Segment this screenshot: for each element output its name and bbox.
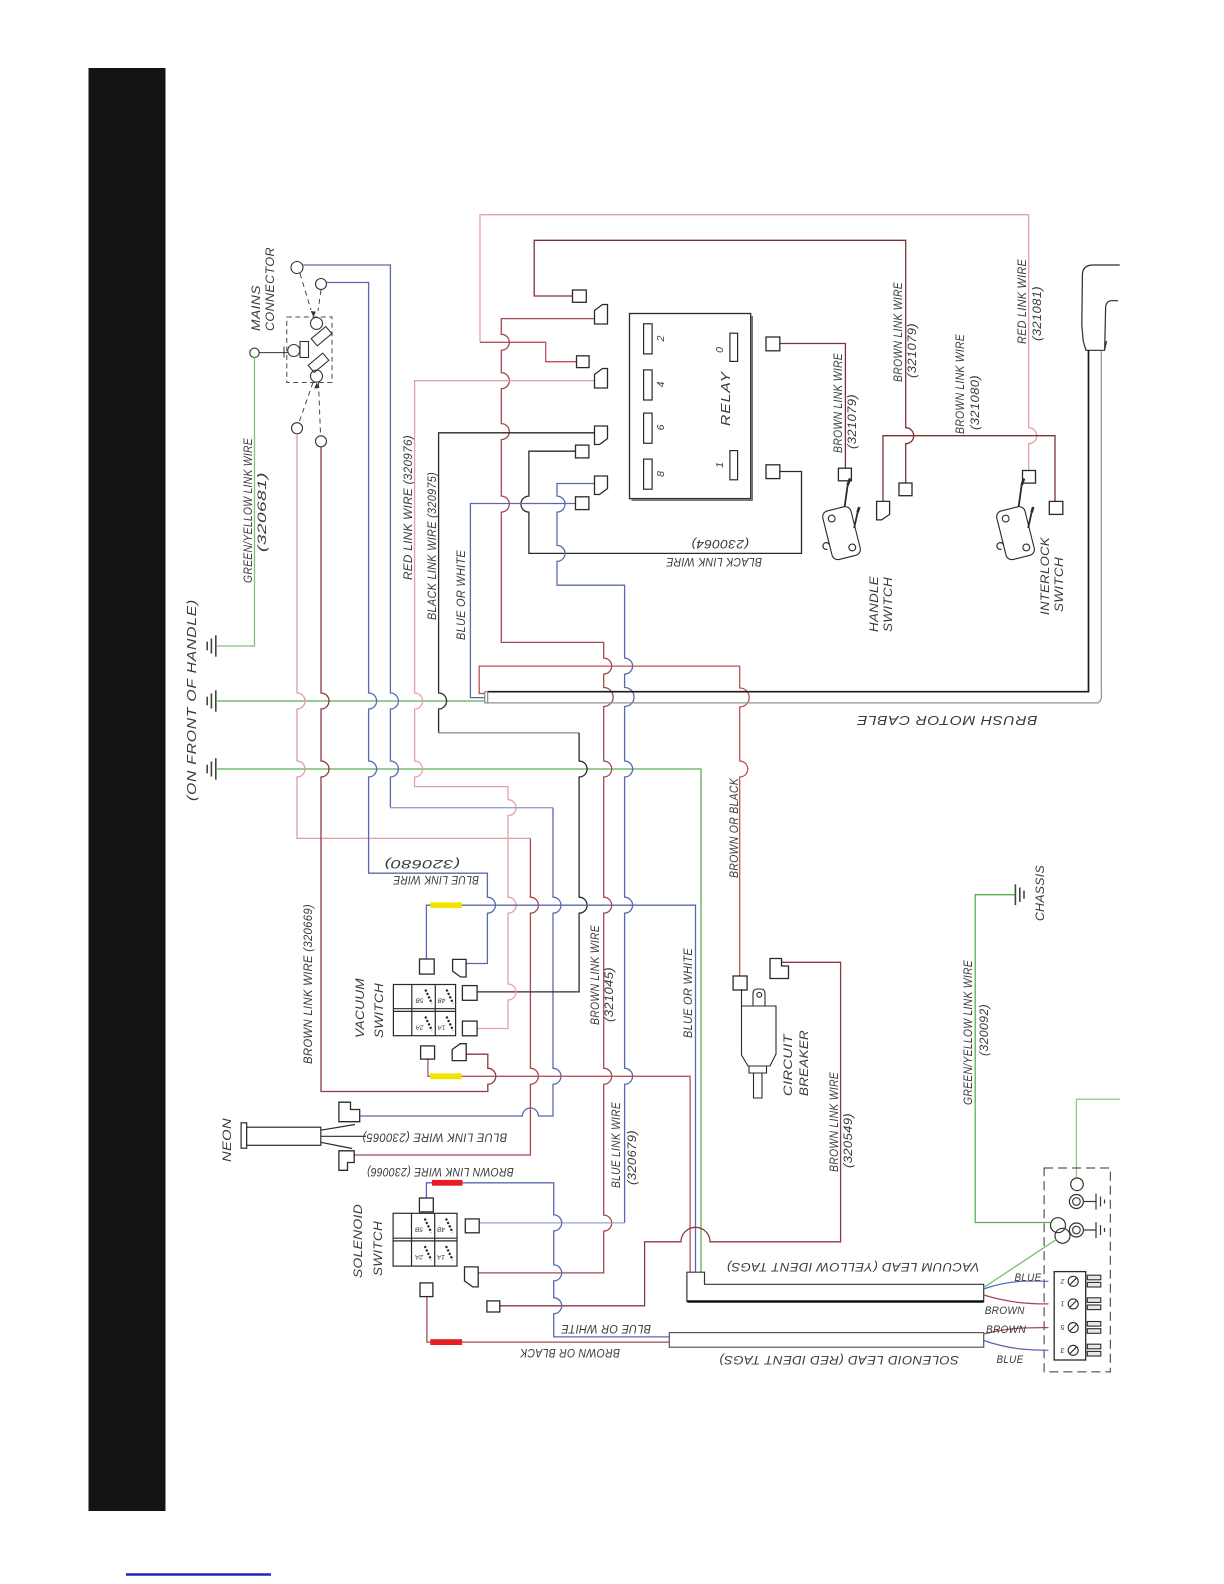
svg-text:5B: 5B [415,997,424,1004]
mains connector pin circle top E [316,279,327,290]
svg-text:BLUE LINK WIRE: BLUE LINK WIRE [611,1102,623,1188]
brush motor cable plug [1082,265,1120,350]
connector earth mark mid [1083,1222,1104,1238]
wire solenoid bottom square brown with red tag to solenoid lead [427,1297,669,1342]
relay terminal flag black [595,426,608,445]
svg-text:(320679): (320679) [627,1130,639,1185]
label brown link wire 321079 (first) [833,353,859,453]
svg-text:BROWN LINK WIRE: BROWN LINK WIRE [833,353,845,453]
black sidebar [89,68,166,1511]
vacuum lead heavy bottom edge [688,1300,984,1302]
svg-text:6: 6 [655,424,667,430]
svg-text:2A: 2A [415,1253,424,1260]
yellow ident tag on blue [431,902,462,908]
label circuit breaker [783,1030,811,1096]
wire vacuum switch brown with yellow tag to vacuum lead [428,1059,690,1272]
mains connector box circle bottom [311,370,323,382]
mains connector box circle top [311,317,323,329]
label blue link wire 320680 rotated 180 [384,857,479,885]
red ident tag on solenoid blue [432,1180,463,1186]
chassis ground symbol [1015,884,1024,905]
label vacuum switch [355,978,386,1038]
svg-text:BLACK LINK WIRE: BLACK LINK WIRE [666,555,762,567]
terminal block pin labels [1060,1277,1065,1353]
vacuum switch box [393,985,455,1036]
label brown link wire 321079 (second) [893,282,919,382]
svg-text:BREAKER: BREAKER [799,1030,811,1096]
label blue link wire 320679 [611,1102,639,1188]
brush motor cable run [488,350,1089,691]
label black link wire 230064 rotated 180 [666,537,762,567]
svg-text:VACUUM LEAD (YELLOW IDENT: VACUUM LEAD (YELLOW IDENT TAGS) [727,1260,980,1272]
interlock switch body [983,478,1045,563]
svg-text:BRUSH MOTOR CABLE: BRUSH MOTOR CABLE [856,713,1037,727]
svg-text:(ON FRONT OF HANDLE): (ON FRONT OF HANDLE) [185,599,199,801]
vacuum lead brown tail to pin 1 [984,1295,1049,1304]
ground symbol handle 3 [207,758,216,779]
svg-text:GREEN/YELLOW LINK WIRE: GREEN/YELLOW LINK WIRE [243,438,255,583]
wire mains blue B down right side to neon upper terminal [303,265,398,808]
solenoid switch bottom-right flag [465,1267,479,1287]
svg-text:2: 2 [655,335,667,342]
wire red link 320976 pink loop relay to interlock switch [480,215,1037,471]
mains connector arrowhead bottom [314,383,319,389]
wire brown link 321079 relay 0 to handle switch square [780,344,845,469]
relay pin numbers [655,335,726,477]
svg-text:INTERLOCK: INTERLOCK [1040,536,1052,615]
wire solenoid top square blue with red tag to solenoid lead [426,1183,669,1337]
mains connector small rect [300,342,309,358]
svg-text:BLUE OR WHITE: BLUE OR WHITE [561,1322,651,1334]
mains connector dashed mating line bottom1 [300,383,314,422]
wire brown link 321080 handle flag to interlock square [883,436,1055,502]
yellow ident tag on brown [430,1073,462,1079]
svg-text:(321045): (321045) [604,967,616,1022]
svg-text:BLUE OR WHITE: BLUE OR WHITE [456,550,468,640]
vacuum switch cell labels rotated 180 [415,997,446,1031]
svg-text:BROWN LINK WIRE: BROWN LINK WIRE [590,925,602,1025]
solenoid lead brown tail to pin 5 [984,1328,1049,1334]
wire black link 320975 flag3 to vacuum switch [439,433,595,733]
relay terminal square 6 [576,445,589,458]
relay terminal flag red [595,369,608,389]
wire mains neutral dark red from pin N down to vacuum switch via 320669 [321,447,496,1092]
relay slot 8 [644,459,653,489]
svg-text:1A: 1A [437,1253,445,1260]
ground symbol handle 1 [207,635,216,656]
mains connector left earth pin circle [250,348,259,357]
label brown link wire 320549 [829,1072,855,1172]
connector bolt circle mid [1069,1223,1083,1237]
ground symbol handle 2 [207,690,216,711]
svg-text:1: 1 [1060,1300,1064,1307]
svg-text:CONNECTOR: CONNECTOR [263,247,277,331]
label interlock switch [1040,536,1066,615]
footer hyperlink underline [126,1573,271,1575]
label brown link wire 321080 [955,334,982,434]
solenoid switch box [393,1213,457,1266]
vacuum switch top-left square [420,959,435,974]
svg-text:BLUE: BLUE [1015,1272,1042,1284]
relay terminal square 2 [573,290,587,302]
wire red to relay terminal 4 square [480,342,577,361]
svg-text:(321080): (321080) [970,375,982,430]
mains connector label [249,247,277,331]
vacuum lead green tail to stud [984,1240,1057,1288]
solenoid switch top square [419,1198,433,1212]
mains connector earth link line [259,352,288,354]
solenoid lead [669,1333,983,1348]
svg-text:BLUE LINK WIRE (230065): BLUE LINK WIRE (230065) [362,1131,507,1143]
mains connector dashed box [287,317,332,383]
wire blue link 320679 flag4 to solenoid switch [557,484,634,1223]
svg-text:4B: 4B [436,1226,445,1233]
mains connector dashed mating line top2 [318,290,321,311]
solenoid switch cell labels rotated 180 [414,1226,445,1260]
label brown link wire 321045 [590,925,616,1025]
parking square terminal (320549 end) [487,1301,500,1312]
wire blue or white relay sq4 to brush cable [470,504,575,698]
wire green1 ground to brush cable [217,700,486,702]
label green/yellow link wire 320681 [243,438,269,583]
circuit breaker square terminal [733,976,747,990]
mains connector dashed mating line top1 [300,274,311,311]
relay terminal square 1 right [766,465,780,479]
svg-text:BROWN: BROWN [986,1324,1026,1336]
red ident tag on solenoid brown [430,1339,462,1345]
svg-text:BROWN OR BLACK: BROWN OR BLACK [729,777,741,878]
svg-text:BLUE: BLUE [997,1354,1024,1366]
vacuum switch top-right flag [453,959,467,977]
svg-text:RELAY: RELAY [718,370,733,426]
svg-text:MAINS: MAINS [249,285,263,331]
svg-text:(321079): (321079) [907,323,919,378]
wire green/yellow 320681 from mains earth pin to handle ground [217,358,255,647]
svg-text:VACUUM: VACUUM [355,978,367,1038]
label red link wire 321081 [1017,259,1044,344]
svg-text:CHASSIS: CHASSIS [1035,865,1047,921]
svg-text:SWITCH: SWITCH [374,983,386,1038]
mains connector arrowhead top [311,311,316,317]
svg-text:RED LINK WIRE (320976): RED LINK WIRE (320976) [403,435,415,580]
vacuum switch contact marks [425,990,453,1031]
wire green/yellow 320092 chassis to connector [975,895,1050,1223]
relay slot 6 [644,413,653,443]
svg-text:BROWN LINK WIRE (230066): BROWN LINK WIRE (230066) [367,1165,514,1177]
svg-text:(320680): (320680) [384,857,460,869]
svg-text:1: 1 [714,462,726,468]
svg-text:1A: 1A [438,1024,446,1031]
svg-text:CIRCUIT: CIRCUIT [783,1033,795,1096]
handle switch right square terminal [899,483,912,496]
svg-text:5: 5 [1060,1323,1064,1330]
solenoid switch contact marks [425,1219,453,1261]
mains connector pin circle bottom N [316,436,327,447]
label handle switch [869,576,895,632]
wire vacuum switch blue with yellow tag to vacuum lead [426,905,695,1272]
vacuum switch bottom square B [462,1021,477,1036]
interlock switch right square terminal [1049,501,1063,514]
wire green/yellow short link top right [1076,1099,1120,1178]
svg-text:(321081): (321081) [1032,286,1044,341]
svg-text:SOLENOID LEAD (RED IDENT T: SOLENOID LEAD (RED IDENT TAGS) [719,1353,959,1365]
wire green2 ground to vacuum lead green conductor [217,769,701,1272]
svg-text:HANDLE: HANDLE [869,576,881,632]
connector earth mark top [1083,1194,1104,1210]
label solenoid switch [353,1204,385,1278]
mains connector fuse rect upper [311,326,332,345]
svg-text:SOLENOID: SOLENOID [353,1204,365,1278]
relay slot 1 [730,451,738,480]
neon lower L terminal [339,1151,354,1171]
brush motor cable end cap [485,692,488,703]
svg-text:4B: 4B [437,997,446,1004]
circuit breaker right L terminal [770,959,789,979]
svg-text:BROWN LINK WIRE: BROWN LINK WIRE [893,282,905,382]
mains connector fuse rect lower [308,353,329,372]
svg-text:BLUE OR WHITE: BLUE OR WHITE [683,948,695,1038]
mains connector dashed mating line bottom2 [319,383,321,435]
connector bolt circle top [1069,1195,1083,1209]
svg-text:5B: 5B [414,1226,423,1233]
wire red conductor of brush cable to circuit breaker [479,666,749,976]
mains connector pin circle bottom L [292,423,303,434]
connector stud circle green top [1071,1178,1084,1191]
svg-text:GREEN/YELLOW LINK WIRE: GREEN/YELLOW LINK WIRE [963,960,975,1105]
vacuum switch bottom-left square [421,1046,435,1059]
wire brown link 321079 relay sq1 to handle switch [534,240,914,483]
relay slot 0 [730,333,738,361]
connector stud circle green mid2 [1055,1228,1070,1243]
relay slot 4 [644,370,653,400]
svg-text:(320549): (320549) [843,1113,855,1168]
svg-text:2A: 2A [416,1024,425,1031]
svg-text:RED LINK WIRE: RED LINK WIRE [1017,259,1029,344]
wire brown link 320549 breaker to parking square [500,962,840,1306]
svg-text:(320681): (320681) [257,472,269,552]
relay box [630,314,753,501]
handle switch body [809,478,871,563]
wire red link 320976 pink flag2 down to vacuum switch [415,381,595,1029]
svg-text:SWITCH: SWITCH [373,1221,385,1276]
relay terminal square 8 [576,497,589,510]
relay terminal square 4 [577,356,590,368]
svg-text:BLACK LINK WIRE (320975): BLACK LINK WIRE (320975) [427,472,439,620]
svg-text:BROWN LINK WIRE (320669): BROWN LINK WIRE (320669) [303,904,315,1064]
svg-text:3: 3 [1060,1346,1064,1353]
relay slot 2 [644,324,653,354]
terminal block 4 way [1054,1272,1086,1360]
svg-text:(321079): (321079) [847,394,859,449]
interlock switch left square terminal [1023,471,1036,484]
vacuum switch bottom-right flag [452,1044,466,1061]
svg-text:BROWN: BROWN [985,1305,1025,1317]
wire mains live pink from pin L down then to neon lower terminal [297,434,530,839]
label green/yellow link wire 320092 [963,960,991,1105]
terminal block screws [1068,1276,1078,1355]
vacuum switch mid square A [462,986,477,1001]
svg-text:SWITCH: SWITCH [883,577,895,632]
mains connector earth circle [288,345,300,357]
solenoid switch bottom-left square [420,1283,433,1297]
solenoid switch right square [465,1219,479,1233]
svg-text:BROWN LINK WIRE: BROWN LINK WIRE [829,1072,841,1172]
vacuum lead ferrule [687,1272,984,1301]
svg-text:SWITCH: SWITCH [1054,557,1066,612]
svg-text:4: 4 [655,381,667,387]
svg-text:(320092): (320092) [979,1004,991,1056]
vacuum lead blue tail to pin 2 [984,1281,1049,1289]
svg-text:(230064): (230064) [691,537,749,549]
connector stud circle green mid [1051,1218,1066,1233]
neon lamp symbol [241,1123,366,1149]
circuit breaker body [742,989,777,1098]
handle switch left square terminal [838,468,851,481]
solenoid lead blue tail to pin 3 [984,1341,1049,1351]
mains connector pin circle top L [291,262,303,274]
svg-text:BROWN OR BLACK: BROWN OR BLACK [519,1346,620,1358]
relay terminal square 0 right [766,337,780,351]
wire mains blue A to vacuum switch blue link 320680 [327,283,496,964]
svg-text:2: 2 [1060,1277,1065,1284]
svg-text:BROWN LINK WIRE: BROWN LINK WIRE [955,334,967,434]
neon upper L terminal [339,1102,360,1122]
svg-text:NEON: NEON [222,1118,234,1162]
svg-text:BLUE LINK WIRE: BLUE LINK WIRE [393,873,479,885]
terminal block spade tabs [1087,1275,1101,1356]
svg-text:0: 0 [714,347,726,353]
svg-text:8: 8 [655,471,667,477]
wire black link 230064 relay 1 loop [521,451,802,553]
relay terminal flag brown [595,305,608,325]
connector panel dashed outline [1044,1168,1110,1372]
handle switch flag terminal [877,501,890,520]
wire brown link flag1 down to solenoid switch flag 321045 [479,319,614,1273]
relay terminal flag blue [595,476,608,495]
